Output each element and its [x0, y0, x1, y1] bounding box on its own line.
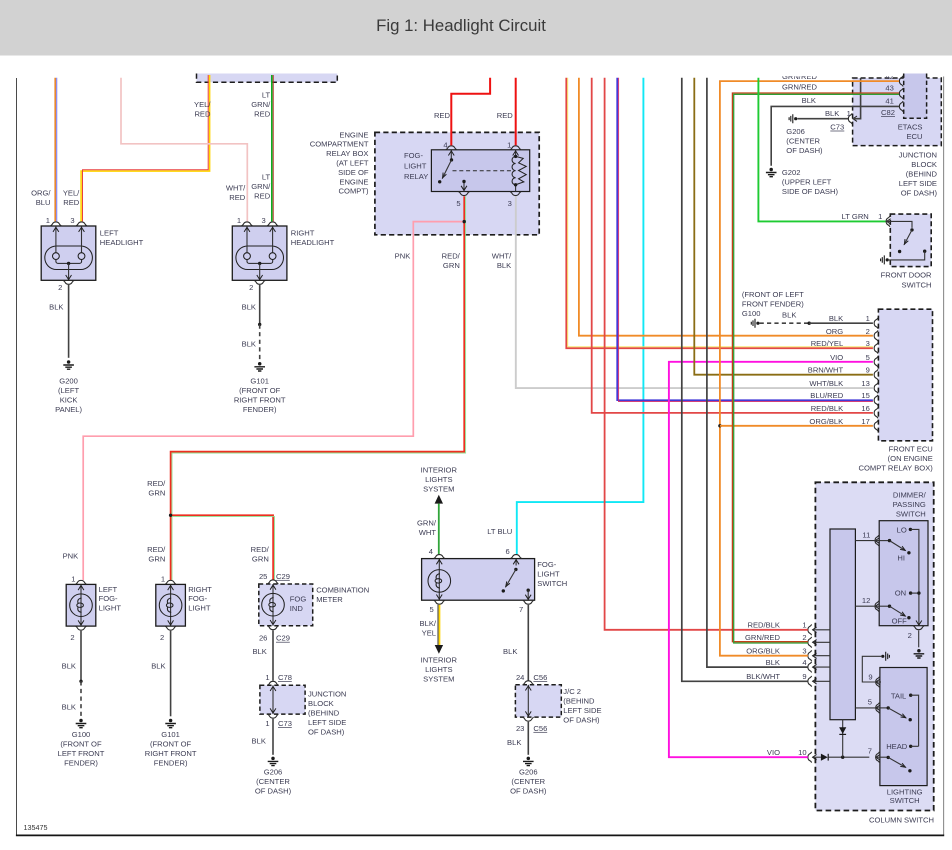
svg-text:VIO: VIO: [830, 353, 843, 362]
wire RED/YEL to front ECU pin 3: [566, 78, 873, 349]
svg-text:SWITCH: SWITCH: [902, 281, 932, 290]
svg-text:YEL/: YEL/: [194, 100, 211, 109]
svg-text:GRN: GRN: [252, 554, 269, 563]
svg-text:ECU: ECU: [906, 132, 922, 141]
svg-text:16: 16: [861, 404, 869, 413]
connector J/C 2: [515, 673, 601, 733]
svg-text:PNK: PNK: [63, 552, 79, 561]
wire BLK/WHT to column switch pin 9: [682, 78, 808, 682]
svg-text:RED: RED: [254, 192, 271, 201]
svg-text:26: 26: [259, 634, 267, 643]
svg-text:C29: C29: [276, 572, 290, 581]
svg-text:G100: G100: [72, 730, 91, 739]
svg-text:BLK/: BLK/: [420, 619, 437, 628]
svg-text:2: 2: [58, 283, 62, 292]
svg-text:BLK: BLK: [252, 647, 266, 656]
svg-text:GRN/: GRN/: [251, 182, 271, 191]
svg-text:BLK: BLK: [242, 303, 256, 312]
svg-text:IND: IND: [290, 604, 304, 613]
svg-text:LIGHTS: LIGHTS: [425, 475, 452, 484]
wire BLK G100 to front ECU pin 1: [760, 311, 873, 325]
wire VIO front ECU pin 5 to column switch pin 10: [669, 362, 873, 757]
wire RED/GRN branch to fog indicator: [169, 514, 275, 580]
svg-text:10: 10: [798, 748, 806, 757]
svg-text:(ON ENGINE: (ON ENGINE: [888, 454, 933, 463]
svg-text:RED: RED: [229, 193, 246, 202]
wire WHT/RED to right headlight pin 1: [121, 78, 247, 222]
engine compartment relay box: [310, 130, 539, 234]
svg-text:BLOCK: BLOCK: [911, 160, 937, 169]
svg-text:1: 1: [866, 314, 870, 323]
svg-text:RED/: RED/: [147, 479, 166, 488]
wire LT BLU to fog switch pin 6: [487, 78, 643, 554]
wire BLK fog indicator to junction block: [252, 630, 273, 680]
wire LT GRN to front door switch pin 1: [758, 78, 885, 222]
svg-text:5: 5: [429, 605, 433, 614]
svg-text:FOG-: FOG-: [537, 560, 556, 569]
svg-text:G206: G206: [264, 767, 283, 776]
svg-text:RED/: RED/: [442, 252, 461, 261]
svg-text:INTERIOR: INTERIOR: [421, 655, 458, 664]
svg-text:GRN: GRN: [148, 488, 165, 497]
svg-text:YEL: YEL: [422, 628, 436, 637]
fog light relay: [404, 141, 530, 209]
svg-text:PASSING: PASSING: [893, 500, 926, 509]
svg-text:SWITCH: SWITCH: [896, 509, 926, 518]
svg-text:G202: G202: [782, 168, 801, 177]
right headlight RH: [232, 216, 334, 292]
svg-text:11: 11: [862, 531, 870, 540]
svg-text:(CENTER: (CENTER: [256, 777, 290, 786]
wire GRN/RED from ETACS pin 43 to column switch pin 2: [732, 93, 899, 643]
svg-text:COMPARTMENT: COMPARTMENT: [310, 140, 369, 149]
svg-text:LT: LT: [262, 90, 271, 99]
svg-text:ETACS: ETACS: [898, 122, 923, 131]
svg-text:4: 4: [429, 547, 433, 556]
svg-text:RIGHT: RIGHT: [188, 585, 212, 594]
svg-text:FRONT DOOR: FRONT DOOR: [881, 271, 932, 280]
svg-text:LEFT FRONT: LEFT FRONT: [58, 749, 105, 758]
svg-text:LEFT SIDE: LEFT SIDE: [308, 718, 346, 727]
svg-text:(AT LEFT: (AT LEFT: [336, 159, 369, 168]
svg-text:RED/: RED/: [147, 545, 166, 554]
svg-text:(CENTER: (CENTER: [786, 137, 820, 146]
svg-text:SWITCH: SWITCH: [537, 579, 567, 588]
svg-text:BLK: BLK: [252, 736, 266, 745]
wire PNK from relay pin 5 junction to left fog light: [63, 220, 466, 580]
wire BLK fog switch pin 7 to J/C 2: [503, 605, 528, 681]
wire BRN/WHT to front ECU pin 9: [694, 78, 873, 375]
svg-text:RELAY BOX: RELAY BOX: [326, 149, 368, 158]
combination meter FOG IND: [259, 572, 369, 643]
svg-text:LIGHT: LIGHT: [537, 569, 560, 578]
svg-text:OF DASH): OF DASH): [510, 786, 547, 795]
svg-text:BLK: BLK: [766, 658, 780, 667]
wire RED/BLK to front ECU pin 16: [592, 78, 873, 413]
svg-text:C73: C73: [278, 719, 292, 728]
svg-text:1: 1: [802, 621, 806, 630]
svg-text:BLK: BLK: [151, 661, 165, 670]
svg-text:VIO: VIO: [767, 748, 780, 757]
svg-text:2: 2: [70, 633, 74, 642]
svg-text:OF DASH): OF DASH): [901, 189, 938, 198]
svg-text:BLK: BLK: [497, 261, 511, 270]
svg-text:BLK: BLK: [507, 738, 521, 747]
wire RED to relay pin 4: [434, 78, 490, 146]
svg-text:41: 41: [885, 97, 893, 106]
svg-text:RIGHT FRONT: RIGHT FRONT: [234, 395, 286, 404]
svg-text:G200: G200: [59, 376, 78, 385]
svg-text:(UPPER LEFT: (UPPER LEFT: [782, 178, 832, 187]
svg-text:2: 2: [160, 633, 164, 642]
svg-text:HI: HI: [897, 553, 905, 562]
right fog light: [156, 574, 212, 642]
svg-text:OF DASH): OF DASH): [255, 786, 292, 795]
svg-text:5: 5: [868, 697, 872, 706]
svg-text:1: 1: [46, 216, 50, 225]
column switch assembly: [815, 482, 934, 824]
svg-text:LIGHTS: LIGHTS: [425, 665, 452, 674]
svg-text:LEFT: LEFT: [100, 228, 119, 237]
svg-text:LEFT SIDE: LEFT SIDE: [563, 706, 601, 715]
svg-text:1: 1: [71, 574, 75, 583]
svg-text:ENGINE: ENGINE: [339, 177, 368, 186]
clipped connector box (top, partially cut off): [197, 74, 338, 83]
svg-text:4: 4: [443, 141, 447, 150]
wire LT GRN/RED to right headlight pin 3: [251, 75, 273, 221]
svg-text:13: 13: [861, 379, 869, 388]
svg-text:LIGHT: LIGHT: [188, 604, 211, 613]
svg-text:1: 1: [265, 673, 269, 682]
svg-text:HEADLIGHT: HEADLIGHT: [291, 238, 335, 247]
svg-text:SYSTEM: SYSTEM: [423, 484, 454, 493]
svg-text:FOG-: FOG-: [404, 151, 423, 160]
svg-text:17: 17: [861, 417, 869, 426]
svg-text:1: 1: [847, 109, 851, 118]
svg-text:1: 1: [161, 574, 165, 583]
wire ORG/BLK from ETACS pin 42 to column switch pin 3: [720, 81, 899, 656]
svg-text:7: 7: [519, 605, 523, 614]
svg-text:BLU/RED: BLU/RED: [810, 391, 843, 400]
svg-text:LIGHT: LIGHT: [404, 162, 427, 171]
wire YEL/RED to left headlight pin 3: [63, 75, 212, 221]
svg-text:G101: G101: [161, 730, 180, 739]
svg-text:1: 1: [237, 216, 241, 225]
svg-text:LEFT: LEFT: [99, 585, 118, 594]
svg-text:3: 3: [802, 647, 806, 656]
svg-text:9: 9: [802, 672, 806, 681]
svg-text:3: 3: [261, 216, 265, 225]
svg-text:PANEL): PANEL): [55, 405, 82, 414]
svg-text:HEAD: HEAD: [886, 742, 908, 751]
svg-text:C29: C29: [276, 634, 290, 643]
svg-text:BLK: BLK: [825, 109, 839, 118]
svg-text:(LEFT: (LEFT: [58, 386, 79, 395]
svg-text:LT: LT: [262, 173, 271, 182]
wire BLK G206 through connector C73/C82 to ETACS: [797, 78, 860, 132]
svg-text:LO: LO: [897, 526, 907, 535]
svg-text:3: 3: [70, 216, 74, 225]
svg-text:BLK: BLK: [62, 661, 76, 670]
svg-text:C56: C56: [533, 673, 547, 682]
ground G101 (right headlight): [234, 362, 286, 414]
svg-text:BLK: BLK: [242, 339, 256, 348]
svg-text:WHT: WHT: [419, 528, 437, 537]
ground G206 (combination meter side): [255, 757, 292, 796]
ground G206 chassis (center of dash, top): [786, 114, 823, 155]
svg-text:C73: C73: [830, 123, 844, 132]
svg-text:FRONT FENDER): FRONT FENDER): [742, 300, 804, 309]
svg-text:RED: RED: [434, 111, 451, 120]
svg-text:BLK/WHT: BLK/WHT: [746, 672, 780, 681]
wire BLK/YEL fog switch pin 5 to interior lights: [420, 605, 458, 684]
svg-text:1: 1: [507, 141, 511, 150]
ground (dimmer switch pin 2): [914, 649, 925, 658]
svg-text:12: 12: [862, 596, 870, 605]
svg-text:ON: ON: [895, 589, 906, 598]
svg-text:C82: C82: [881, 108, 895, 117]
svg-text:COMPT): COMPT): [339, 187, 369, 196]
svg-text:DIMMER/: DIMMER/: [893, 490, 927, 499]
svg-text:INTERIOR: INTERIOR: [421, 465, 458, 474]
svg-text:FENDER): FENDER): [64, 759, 98, 768]
svg-text:RIGHT FRONT: RIGHT FRONT: [145, 749, 197, 758]
svg-text:JUNCTION: JUNCTION: [308, 689, 346, 698]
wire BLK to column switch pin 4: [707, 78, 808, 667]
svg-text:G100: G100: [742, 309, 761, 318]
svg-text:6: 6: [505, 547, 509, 556]
svg-text:ORG/BLK: ORG/BLK: [746, 647, 780, 656]
svg-text:RED/: RED/: [251, 545, 270, 554]
clipped pin 42 label row: [765, 66, 900, 81]
svg-text:OF DASH): OF DASH): [563, 715, 600, 724]
svg-text:FENDER): FENDER): [154, 759, 188, 768]
svg-text:RED: RED: [497, 111, 514, 120]
svg-text:GRN/RED: GRN/RED: [782, 83, 818, 92]
svg-text:BLK: BLK: [503, 647, 517, 656]
svg-text:G101: G101: [250, 376, 269, 385]
svg-text:SWITCH: SWITCH: [890, 796, 920, 805]
wire BLK left fog light to ground: [62, 631, 83, 717]
svg-text:BLK: BLK: [782, 311, 796, 320]
svg-text:9: 9: [866, 366, 870, 375]
svg-text:GRN/RED: GRN/RED: [745, 633, 781, 642]
svg-text:COMBINATION: COMBINATION: [316, 586, 369, 595]
ground G206 (center of dash): [510, 757, 547, 796]
ground G202: [766, 168, 839, 196]
svg-text:1: 1: [265, 719, 269, 728]
svg-text:BLK: BLK: [829, 314, 843, 323]
svg-text:SIDE OF DASH): SIDE OF DASH): [782, 187, 839, 196]
svg-text:RELAY: RELAY: [404, 172, 428, 181]
svg-text:LT GRN: LT GRN: [842, 212, 869, 221]
wire BLK junction block to ground G206: [252, 719, 273, 755]
svg-text:WHT/: WHT/: [226, 183, 246, 192]
svg-text:15: 15: [861, 391, 869, 400]
svg-text:RED: RED: [254, 109, 271, 118]
svg-text:RED: RED: [194, 109, 211, 118]
svg-text:G206: G206: [786, 127, 805, 136]
svg-text:(BEHIND: (BEHIND: [906, 170, 938, 179]
svg-text:LT BLU: LT BLU: [487, 527, 512, 536]
svg-text:PNK: PNK: [395, 252, 411, 261]
title bar: [0, 0, 952, 56]
svg-text:WHT/: WHT/: [492, 252, 512, 261]
svg-text:5: 5: [866, 353, 870, 362]
svg-text:2: 2: [249, 283, 253, 292]
svg-text:9: 9: [868, 673, 872, 682]
svg-text:GRN: GRN: [443, 261, 460, 270]
svg-text:HEADLIGHT: HEADLIGHT: [100, 238, 144, 247]
svg-text:(CENTER: (CENTER: [511, 777, 545, 786]
junction block (combination meter side): [260, 673, 346, 736]
ground G101 (right fog light): [145, 719, 197, 768]
svg-text:JUNCTION: JUNCTION: [899, 151, 937, 160]
svg-text:23: 23: [516, 724, 524, 733]
svg-text:135475: 135475: [24, 823, 48, 832]
svg-text:SIDE OF: SIDE OF: [338, 168, 369, 177]
fog light switch: [422, 547, 568, 614]
wire ORG/BLK branch to front ECU pin 17: [718, 424, 873, 427]
wire BLK left headlight to ground: [49, 285, 68, 358]
wire BLK right fog light to ground: [151, 631, 170, 717]
svg-text:WHT/BLK: WHT/BLK: [809, 379, 843, 388]
svg-text:24: 24: [516, 673, 524, 682]
svg-text:TAIL: TAIL: [891, 691, 906, 700]
wire BLK ETACS pin 41 to ground G202: [771, 106, 899, 165]
svg-text:BLK: BLK: [49, 303, 63, 312]
svg-text:COLUMN SWITCH: COLUMN SWITCH: [869, 816, 934, 825]
svg-text:(FRONT OF: (FRONT OF: [150, 740, 192, 749]
interior lights system arrow (top): [421, 465, 458, 503]
svg-text:RED/BLK: RED/BLK: [748, 621, 781, 630]
front ECU: [808, 309, 933, 472]
left fog light: [66, 574, 121, 642]
column switch pin connectors (left side): [745, 621, 830, 687]
svg-text:GRN/: GRN/: [417, 519, 437, 528]
svg-text:4: 4: [802, 658, 806, 667]
wire WHT/BLK from relay pin 3: [492, 196, 873, 388]
svg-text:LIGHT: LIGHT: [99, 604, 122, 613]
svg-text:(BEHIND: (BEHIND: [563, 696, 595, 705]
svg-text:5: 5: [456, 199, 460, 208]
front door switch: [881, 214, 932, 290]
svg-text:1: 1: [878, 212, 882, 221]
svg-text:ENGINE: ENGINE: [339, 130, 368, 139]
wire GRN/WHT to fog switch pin 4: [417, 504, 439, 554]
ground G100 (left fog light): [58, 719, 105, 768]
svg-text:Fig 1: Headlight Circuit: Fig 1: Headlight Circuit: [376, 16, 546, 35]
column switch connector bar: [830, 529, 855, 720]
ground G200: [55, 360, 82, 414]
svg-text:OF DASH): OF DASH): [786, 146, 823, 155]
svg-text:SYSTEM: SYSTEM: [423, 674, 454, 683]
ETACS ECU junction block: [782, 74, 941, 198]
svg-text:OFF: OFF: [892, 616, 908, 625]
svg-text:(BEHIND: (BEHIND: [308, 708, 340, 717]
svg-text:(FRONT OF: (FRONT OF: [60, 740, 102, 749]
svg-text:RED/BLK: RED/BLK: [811, 404, 844, 413]
svg-text:GRN: GRN: [148, 554, 165, 563]
left headlight LH: [41, 216, 143, 292]
svg-text:BLU: BLU: [36, 198, 51, 207]
wire ORG to front ECU pin 2: [579, 78, 873, 336]
svg-text:KICK: KICK: [60, 395, 78, 404]
svg-text:BLK: BLK: [802, 96, 816, 105]
svg-text:GRN/: GRN/: [251, 100, 271, 109]
svg-text:C56: C56: [533, 724, 547, 733]
wire RED/GRN from relay pin 5 to fog lights: [147, 196, 465, 580]
wire BLU/RED to front ECU pin 15: [617, 78, 873, 402]
svg-text:RED: RED: [63, 198, 80, 207]
wire BLK J/C 2 to ground G206: [507, 722, 528, 755]
svg-text:2: 2: [802, 633, 806, 642]
svg-text:J/C 2: J/C 2: [563, 687, 581, 696]
svg-text:ORG/: ORG/: [31, 189, 51, 198]
wire RED/BLK to column switch pin 1: [605, 78, 808, 630]
ground G100 chassis (front of left front fender): [742, 290, 804, 328]
svg-text:2: 2: [908, 631, 912, 640]
wire RED to relay pin 1: [497, 78, 516, 146]
svg-text:RIGHT: RIGHT: [291, 228, 315, 237]
lighting switch: [767, 652, 927, 805]
dimmer/passing switch: [855, 490, 928, 647]
svg-text:43: 43: [885, 83, 893, 92]
svg-text:LEFT SIDE: LEFT SIDE: [899, 179, 937, 188]
svg-text:FENDER): FENDER): [243, 405, 277, 414]
svg-text:BRN/WHT: BRN/WHT: [808, 366, 844, 375]
svg-text:ORG: ORG: [826, 327, 843, 336]
svg-text:METER: METER: [316, 595, 343, 604]
svg-text:FOG-: FOG-: [188, 594, 207, 603]
svg-text:25: 25: [259, 572, 267, 581]
svg-text:(FRONT OF: (FRONT OF: [239, 386, 281, 395]
svg-text:2: 2: [866, 327, 870, 336]
svg-text:(FRONT OF LEFT: (FRONT OF LEFT: [742, 290, 804, 299]
svg-text:G206: G206: [519, 767, 538, 776]
svg-text:FOG-: FOG-: [99, 594, 118, 603]
svg-text:OF DASH): OF DASH): [308, 727, 345, 736]
svg-text:7: 7: [868, 747, 872, 756]
svg-text:FOG: FOG: [290, 594, 307, 603]
svg-text:COMPT RELAY BOX): COMPT RELAY BOX): [859, 464, 934, 473]
svg-text:ORG/BLK: ORG/BLK: [809, 417, 843, 426]
wire BLK right headlight to ground: [242, 285, 262, 360]
svg-text:FRONT ECU: FRONT ECU: [889, 445, 933, 454]
svg-text:YEL/: YEL/: [63, 189, 80, 198]
svg-text:C78: C78: [278, 673, 292, 682]
wire ORG/BLU to left headlight pin 1: [31, 78, 57, 222]
svg-text:3: 3: [508, 199, 512, 208]
svg-text:BLK: BLK: [62, 702, 76, 711]
svg-text:BLOCK: BLOCK: [308, 699, 334, 708]
